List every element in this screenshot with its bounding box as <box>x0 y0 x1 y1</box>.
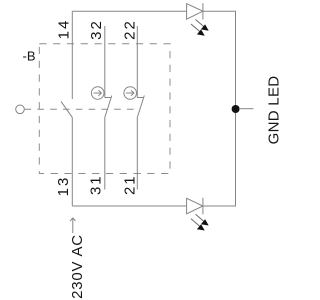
contact NC blade 2 <box>137 96 144 118</box>
wire terminal 14 top segment <box>71 11 73 99</box>
LED D2 emission arrows <box>191 214 209 230</box>
wire top bus left <box>72 10 186 12</box>
wire terminal 21 bottom segment <box>136 117 138 189</box>
svg-text:31: 31 <box>88 174 105 195</box>
contact NC seat tick 1 <box>105 97 111 99</box>
svg-text:-B: -B <box>23 49 36 64</box>
wire terminal 31 bottom segment <box>104 117 106 189</box>
svg-text:GND LED: GND LED <box>265 76 282 145</box>
wire top bus right <box>203 10 236 12</box>
svg-text:14: 14 <box>56 19 73 40</box>
svg-text:22: 22 <box>121 19 138 40</box>
junction node GND LED <box>232 105 240 113</box>
svg-text:13: 13 <box>55 176 72 197</box>
svg-text:32: 32 <box>88 19 105 40</box>
wire bottom bus right <box>203 205 236 207</box>
positive opening symbol circle 2 <box>124 87 137 100</box>
LED D1 top <box>187 3 203 19</box>
supply arrow 230V AC <box>70 218 75 233</box>
mechanical linkage dashed line <box>25 108 141 110</box>
contact NC seat tick 2 <box>137 97 143 99</box>
svg-text:21: 21 <box>121 174 138 195</box>
wire terminal 22 top segment <box>136 26 138 98</box>
LED D2 bottom <box>187 198 203 215</box>
GND LED stub wire <box>239 108 254 110</box>
contact NC blade 1 <box>105 96 112 118</box>
wire right bus vertical <box>235 11 237 206</box>
svg-text:230V AC: 230V AC <box>69 234 86 299</box>
wire terminal 13 bottom segment <box>71 118 73 206</box>
LED D1 emission arrows <box>191 20 209 36</box>
wire bottom bus left <box>72 205 186 207</box>
wire terminal 32 top segment <box>104 26 106 98</box>
positive opening symbol circle 1 <box>91 87 104 100</box>
enclosure dashed box <box>39 44 170 174</box>
contact NO blade <box>61 101 72 117</box>
actuator terminal circle <box>16 105 25 114</box>
